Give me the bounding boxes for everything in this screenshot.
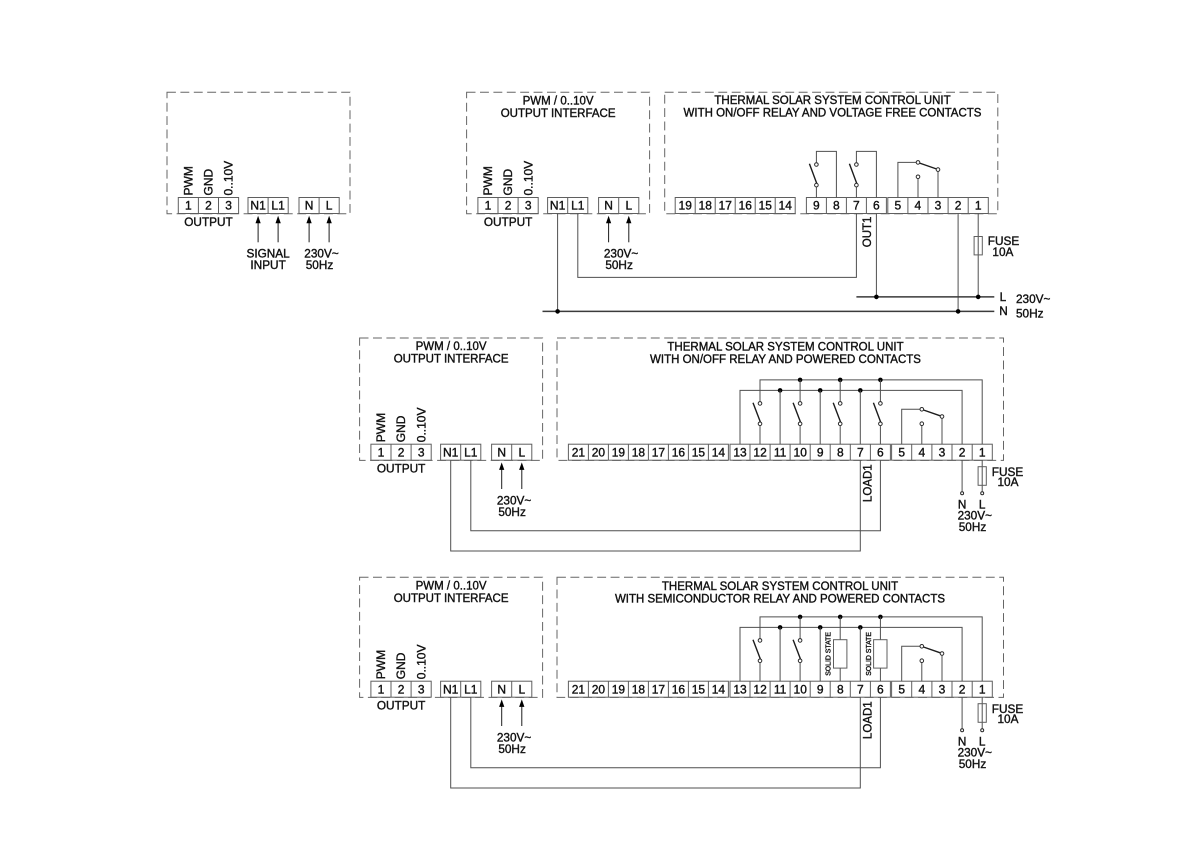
junction upper bus / solid-state relay pin 8 (U3) bbox=[838, 615, 843, 620]
interface C terminal block pins N L bbox=[492, 444, 532, 460]
svg-text:1: 1 bbox=[185, 199, 192, 213]
changeover relay contact (U2, common 5, contacts 4 and 3) bbox=[902, 408, 944, 445]
interface A mains arrow into N bbox=[306, 216, 311, 243]
svg-text:18: 18 bbox=[632, 682, 646, 696]
svg-text:6: 6 bbox=[877, 682, 884, 696]
fuse F1 10A bbox=[974, 237, 982, 255]
svg-text:13: 13 bbox=[733, 682, 747, 696]
svg-text:PWM: PWM bbox=[182, 166, 196, 195]
svg-text:L: L bbox=[625, 199, 632, 213]
svg-text:L1: L1 bbox=[464, 445, 478, 459]
svg-text:8: 8 bbox=[837, 445, 844, 459]
svg-text:L: L bbox=[518, 682, 525, 696]
power bus line L (230V~) bbox=[856, 296, 994, 298]
wire terminal 9 up to contact K1 bbox=[815, 187, 817, 198]
svg-text:10A: 10A bbox=[998, 475, 1019, 489]
svg-text:0..10V: 0..10V bbox=[222, 161, 236, 196]
svg-text:OUTPUT: OUTPUT bbox=[484, 215, 533, 229]
svg-text:2: 2 bbox=[505, 199, 512, 213]
svg-text:17: 17 bbox=[652, 445, 666, 459]
power bus line N (230V~) bbox=[543, 310, 995, 312]
wire terminal 2 (U3) down to N terminal circle bbox=[961, 697, 963, 729]
wire contact K1 top loop to terminal 8 bbox=[816, 151, 836, 197]
wire terminal 2 down to N bus bbox=[957, 214, 959, 312]
svg-text:L1: L1 bbox=[571, 199, 585, 213]
svg-text:50Hz: 50Hz bbox=[605, 258, 633, 272]
svg-text:0..10V: 0..10V bbox=[414, 644, 428, 679]
interface A terminal block pins 1 2 3 bbox=[178, 198, 238, 214]
svg-text:19: 19 bbox=[679, 199, 693, 213]
svg-text:15: 15 bbox=[692, 445, 706, 459]
svg-text:PWM / 0..10V: PWM / 0..10V bbox=[416, 580, 487, 592]
wire contact down to terminal (U2, x=760) bbox=[759, 426, 761, 445]
svg-text:11: 11 bbox=[774, 445, 787, 459]
wire terminal 7 up to contact K2 bbox=[855, 187, 857, 198]
svg-text:20: 20 bbox=[592, 682, 606, 696]
svg-text:13: 13 bbox=[733, 445, 747, 459]
svg-text:14: 14 bbox=[712, 682, 726, 696]
svg-text:21: 21 bbox=[572, 445, 586, 459]
svg-text:OUTPUT INTERFACE: OUTPUT INTERFACE bbox=[394, 593, 509, 605]
control unit U2 terminal block pins 13-6 bbox=[730, 444, 890, 460]
lower supply bus (U2) from terminal 13 to terminal 2 bbox=[740, 390, 962, 444]
svg-text:GND: GND bbox=[394, 652, 408, 679]
svg-text:N: N bbox=[497, 682, 506, 696]
interface C terminal block pins N1 L1 bbox=[441, 444, 481, 460]
svg-text:OUTPUT: OUTPUT bbox=[377, 699, 426, 713]
svg-text:5: 5 bbox=[898, 682, 905, 696]
svg-text:1: 1 bbox=[485, 199, 492, 213]
svg-text:THERMAL SOLAR SYSTEM CONTROL U: THERMAL SOLAR SYSTEM CONTROL UNIT bbox=[667, 342, 903, 354]
interface B terminal block pins N1 L1 bbox=[548, 198, 588, 214]
svg-text:17: 17 bbox=[652, 682, 666, 696]
interface D mains arrow into L bbox=[519, 699, 524, 726]
relay contact (U2) over pin 10 bbox=[793, 402, 802, 426]
svg-text:N1: N1 bbox=[550, 199, 566, 213]
interface C terminal block pins 1 2 3 bbox=[371, 444, 431, 460]
interface B terminal block pins 1 2 3 bbox=[478, 198, 538, 214]
interface D terminal block pins N L bbox=[492, 681, 532, 697]
wire L1 (interface B) to terminal 7 of U1 bbox=[578, 214, 857, 278]
svg-text:10A: 10A bbox=[992, 245, 1013, 259]
interface A signal arrow into L1 bbox=[276, 216, 281, 243]
svg-text:50Hz: 50Hz bbox=[959, 757, 987, 771]
svg-text:19: 19 bbox=[612, 445, 626, 459]
svg-text:15: 15 bbox=[692, 682, 706, 696]
svg-text:OUTPUT: OUTPUT bbox=[184, 215, 233, 229]
interface D terminal block pins 1 2 3 bbox=[371, 681, 431, 697]
wire terminal 1 (U2) down through fuse to L terminal circle bbox=[981, 460, 983, 492]
junction upper bus / contact over pin 6 (U2) bbox=[878, 378, 883, 383]
svg-text:3: 3 bbox=[418, 445, 425, 459]
relay contact (U2) over pin 8 bbox=[833, 402, 842, 426]
wire contact down to terminal (U2, x=880) bbox=[879, 426, 881, 445]
svg-text:3: 3 bbox=[225, 199, 232, 213]
svg-text:N1: N1 bbox=[443, 682, 459, 696]
solid state relay SSR over pin 8 (U3) bbox=[834, 617, 847, 681]
svg-text:14: 14 bbox=[712, 445, 726, 459]
interface C mains arrow into N bbox=[499, 462, 504, 489]
svg-text:1: 1 bbox=[378, 445, 385, 459]
svg-text:L: L bbox=[518, 445, 525, 459]
wire contact down to terminal (U3, x=800) bbox=[799, 663, 801, 682]
svg-text:OUTPUT INTERFACE: OUTPUT INTERFACE bbox=[394, 354, 509, 366]
svg-text:21: 21 bbox=[572, 682, 586, 696]
svg-text:7: 7 bbox=[857, 682, 864, 696]
svg-text:0..10V: 0..10V bbox=[414, 407, 428, 442]
open terminal circle L (U2) bbox=[981, 492, 984, 495]
svg-text:N1: N1 bbox=[443, 445, 459, 459]
svg-text:6: 6 bbox=[877, 445, 884, 459]
solid state relay SSR over pin 6 (U3) bbox=[874, 617, 887, 681]
svg-text:2: 2 bbox=[959, 445, 966, 459]
svg-text:16: 16 bbox=[739, 199, 753, 213]
wire terminal 2 (U2) down to N terminal circle bbox=[961, 460, 963, 492]
svg-text:50Hz: 50Hz bbox=[959, 520, 987, 534]
svg-text:9: 9 bbox=[813, 199, 820, 213]
svg-text:20: 20 bbox=[592, 445, 606, 459]
wire contact down to terminal (U2, x=840) bbox=[839, 426, 841, 445]
svg-text:PWM / 0..10V: PWM / 0..10V bbox=[523, 95, 594, 107]
svg-text:6: 6 bbox=[873, 199, 880, 213]
wire L1 (interface C) to terminal 6 of U2 bbox=[471, 460, 881, 531]
control unit U1 (thermal solar system control unit, dashed enclosure) bbox=[665, 92, 998, 214]
interface A terminal block pins N1 L1 bbox=[248, 198, 288, 214]
interface A signal arrow into N1 bbox=[256, 216, 261, 243]
junction upper bus / contact over pin 10 (U3) bbox=[798, 615, 803, 620]
svg-text:12: 12 bbox=[753, 682, 767, 696]
wire lower bus down to terminal 11 (U3) bbox=[779, 627, 781, 681]
svg-text:N: N bbox=[604, 199, 613, 213]
svg-text:9: 9 bbox=[817, 445, 824, 459]
svg-text:7: 7 bbox=[857, 445, 864, 459]
wire terminal 6 down to L bus bbox=[875, 214, 877, 297]
svg-text:PWM: PWM bbox=[374, 413, 388, 442]
svg-text:OUTPUT INTERFACE: OUTPUT INTERFACE bbox=[501, 108, 616, 120]
svg-text:INPUT: INPUT bbox=[250, 258, 285, 272]
wire terminal 1 (U3) down through fuse to L terminal circle bbox=[981, 697, 983, 729]
svg-text:SOLID STATE: SOLID STATE bbox=[826, 632, 833, 676]
svg-text:230V~: 230V~ bbox=[1016, 292, 1051, 306]
wire N1 (interface C) to terminal 7 of U2 bbox=[451, 460, 861, 551]
lower supply bus (U3) from terminal 13 to terminal 2 bbox=[740, 627, 962, 681]
interface B mains arrow into L bbox=[626, 216, 631, 243]
control unit U1 terminal block pins 9-6 bbox=[806, 198, 886, 214]
svg-text:2: 2 bbox=[205, 199, 212, 213]
svg-text:GND: GND bbox=[202, 169, 216, 196]
svg-text:17: 17 bbox=[719, 199, 733, 213]
svg-text:11: 11 bbox=[774, 682, 787, 696]
junction lower bus / terminal 7 (U3) bbox=[858, 625, 863, 630]
svg-text:50Hz: 50Hz bbox=[1016, 306, 1044, 320]
svg-text:50Hz: 50Hz bbox=[306, 258, 334, 272]
svg-text:N: N bbox=[305, 199, 314, 213]
fuse F3 10A bbox=[978, 704, 986, 723]
wire N1 (interface D) to terminal 7 of U3 bbox=[451, 697, 861, 788]
wire L1 (interface D) to terminal 6 of U3 bbox=[471, 697, 881, 768]
relay contact (U3) over pin 12 bbox=[753, 639, 762, 663]
svg-text:WITH ON/OFF RELAY AND VOLTAGE: WITH ON/OFF RELAY AND VOLTAGE FREE CONTA… bbox=[684, 108, 982, 120]
svg-text:50Hz: 50Hz bbox=[498, 505, 526, 519]
svg-text:7: 7 bbox=[853, 199, 860, 213]
junction lower bus / terminal 9 (U2) bbox=[818, 388, 823, 393]
control unit U3 terminal block pins 5-1 bbox=[892, 681, 993, 697]
svg-text:15: 15 bbox=[759, 199, 773, 213]
interface A mains arrow into L bbox=[327, 216, 332, 243]
junction N1 / N bus bbox=[555, 309, 560, 314]
wire upper bus down to contact (U2, x=880) bbox=[879, 380, 881, 402]
svg-text:10: 10 bbox=[794, 682, 808, 696]
svg-text:9: 9 bbox=[817, 682, 824, 696]
control unit U2 terminal block pins 21-14 bbox=[568, 444, 728, 460]
control unit U1 terminal block pins 19-14 bbox=[675, 198, 795, 214]
control unit U3 terminal block pins 13-6 bbox=[730, 681, 890, 697]
junction terminal 6 / L bus bbox=[874, 295, 879, 300]
interface C mains arrow into L bbox=[519, 462, 524, 489]
svg-text:4: 4 bbox=[918, 682, 925, 696]
wire N1 (interface B) down to N bus bbox=[557, 214, 559, 312]
PWM/0..10V output interface module B (dashed enclosure) bbox=[467, 92, 650, 214]
junction upper bus / contact over pin 10 (U2) bbox=[798, 378, 803, 383]
junction terminal 2 / N bus bbox=[956, 309, 961, 314]
junction lower bus / terminal 7 (U2) bbox=[858, 388, 863, 393]
relay contact (U2) over pin 6 bbox=[873, 402, 882, 426]
svg-text:10A: 10A bbox=[998, 712, 1019, 726]
PWM/0..10V output interface module D (dashed enclosure) bbox=[360, 577, 543, 697]
wire contact down to terminal (U3, x=760) bbox=[759, 663, 761, 682]
control unit U2 (dashed enclosure) bbox=[557, 338, 1004, 460]
junction lower bus / terminal 11 (U2) bbox=[778, 388, 783, 393]
svg-text:2: 2 bbox=[398, 445, 405, 459]
svg-text:N: N bbox=[999, 304, 1008, 318]
svg-text:2: 2 bbox=[959, 682, 966, 696]
svg-text:16: 16 bbox=[672, 445, 686, 459]
junction fuse F1 / L bus bbox=[976, 295, 981, 300]
svg-text:1: 1 bbox=[979, 445, 986, 459]
svg-text:OUT1: OUT1 bbox=[862, 217, 874, 248]
relay contact K2 (pins 7-6, open) bbox=[849, 163, 858, 187]
svg-text:PWM: PWM bbox=[481, 166, 495, 195]
open terminal circle N (U3) bbox=[961, 729, 964, 732]
upper supply bus (U2) from contact 12 to terminal 1 bbox=[760, 380, 982, 444]
upper supply bus (U3) from contact 12 to terminal 1 bbox=[760, 617, 982, 681]
relay contact K1 (pins 9-8, open) bbox=[809, 163, 818, 187]
svg-text:THERMAL SOLAR SYSTEM CONTROL U: THERMAL SOLAR SYSTEM CONTROL UNIT bbox=[662, 581, 898, 593]
interface B terminal block pins N L bbox=[599, 198, 639, 214]
fuse F2 10A bbox=[978, 467, 986, 486]
svg-text:5: 5 bbox=[894, 199, 901, 213]
svg-text:GND: GND bbox=[394, 415, 408, 442]
svg-text:L: L bbox=[1000, 290, 1007, 304]
svg-text:18: 18 bbox=[699, 199, 713, 213]
wire upper bus down to contact (U2, x=840) bbox=[839, 380, 841, 402]
control unit U3 terminal block pins 21-14 bbox=[568, 681, 728, 697]
svg-text:4: 4 bbox=[915, 199, 922, 213]
wire contact K2 top loop to terminal 6 bbox=[856, 151, 876, 197]
junction upper bus / solid-state relay pin 6 (U3) bbox=[878, 615, 883, 620]
svg-text:LOAD1: LOAD1 bbox=[863, 701, 875, 739]
wire contact down to terminal (U2, x=800) bbox=[799, 426, 801, 445]
svg-text:GND: GND bbox=[501, 169, 515, 196]
svg-text:3: 3 bbox=[525, 199, 532, 213]
relay contact (U3) over pin 10 bbox=[793, 639, 802, 663]
interface D mains arrow into N bbox=[499, 699, 504, 726]
relay contact (U2) over pin 12 bbox=[753, 402, 762, 426]
wire terminal 1 down through fuse F1 to L bus bbox=[977, 214, 979, 297]
svg-text:3: 3 bbox=[418, 682, 425, 696]
svg-text:2: 2 bbox=[398, 682, 405, 696]
junction upper bus / contact over pin 8 (U2) bbox=[838, 378, 843, 383]
svg-text:8: 8 bbox=[837, 682, 844, 696]
svg-text:1: 1 bbox=[975, 199, 982, 213]
wire upper bus down to contact (U2, x=800) bbox=[799, 380, 801, 402]
junction lower bus / terminal 9 (U3) bbox=[818, 625, 823, 630]
wire lower bus down to terminal 7 (U3) bbox=[859, 627, 861, 681]
svg-text:N1: N1 bbox=[250, 199, 266, 213]
svg-text:0..10V: 0..10V bbox=[521, 161, 535, 196]
svg-text:2: 2 bbox=[955, 199, 962, 213]
svg-text:LOAD1: LOAD1 bbox=[863, 464, 875, 502]
svg-text:50Hz: 50Hz bbox=[498, 742, 526, 756]
control unit U3 (dashed enclosure) bbox=[557, 577, 1004, 697]
svg-text:12: 12 bbox=[753, 445, 767, 459]
svg-text:4: 4 bbox=[918, 445, 925, 459]
interface D terminal block pins N1 L1 bbox=[441, 681, 481, 697]
wire lower bus down to terminal 9 (U3) bbox=[819, 627, 821, 681]
svg-text:1: 1 bbox=[979, 682, 986, 696]
svg-text:L1: L1 bbox=[271, 199, 285, 213]
svg-text:WITH SEMICONDUCTOR RELAY AND P: WITH SEMICONDUCTOR RELAY AND POWERED CON… bbox=[615, 593, 945, 605]
svg-text:3: 3 bbox=[939, 445, 946, 459]
svg-text:N: N bbox=[497, 445, 506, 459]
junction lower bus / terminal 11 (U3) bbox=[778, 625, 783, 630]
svg-text:19: 19 bbox=[612, 682, 626, 696]
svg-text:16: 16 bbox=[672, 682, 686, 696]
svg-text:L1: L1 bbox=[464, 682, 478, 696]
control unit U2 terminal block pins 5-1 bbox=[892, 444, 993, 460]
svg-text:14: 14 bbox=[779, 199, 793, 213]
changeover relay contact K3 (common 5, contacts 4 and 3) bbox=[898, 161, 940, 198]
svg-text:3: 3 bbox=[939, 682, 946, 696]
wire upper bus down to contact (U3, x=800) bbox=[799, 617, 801, 639]
svg-text:L: L bbox=[326, 199, 333, 213]
wire lower bus down to terminal 9 (U2) bbox=[819, 390, 821, 444]
interface A terminal block pins N L bbox=[299, 198, 339, 214]
svg-text:WITH ON/OFF RELAY AND POWERED: WITH ON/OFF RELAY AND POWERED CONTACTS bbox=[650, 354, 921, 366]
svg-text:THERMAL SOLAR SYSTEM CONTROL U: THERMAL SOLAR SYSTEM CONTROL UNIT bbox=[714, 95, 950, 107]
PWM/0..10V output interface module A (dashed enclosure) bbox=[167, 92, 350, 214]
svg-text:PWM / 0..10V: PWM / 0..10V bbox=[416, 341, 487, 353]
svg-text:18: 18 bbox=[632, 445, 646, 459]
changeover relay contact (U3, common 5, contacts 4 and 3) bbox=[902, 645, 944, 682]
control unit U1 terminal block pins 5-1 bbox=[888, 198, 989, 214]
svg-text:8: 8 bbox=[833, 199, 840, 213]
svg-text:10: 10 bbox=[794, 445, 808, 459]
svg-text:PWM: PWM bbox=[374, 650, 388, 679]
svg-text:5: 5 bbox=[898, 445, 905, 459]
open terminal circle L (U3) bbox=[981, 729, 984, 732]
svg-text:SOLID STATE: SOLID STATE bbox=[866, 632, 873, 676]
svg-text:OUTPUT: OUTPUT bbox=[377, 462, 426, 476]
PWM/0..10V output interface module C (dashed enclosure) bbox=[360, 338, 543, 460]
wire lower bus down to terminal 11 (U2) bbox=[779, 390, 781, 444]
interface B mains arrow into N bbox=[606, 216, 611, 243]
svg-text:1: 1 bbox=[378, 682, 385, 696]
wire lower bus down to terminal 7 (U2) bbox=[859, 390, 861, 444]
svg-text:3: 3 bbox=[935, 199, 942, 213]
open terminal circle N (U2) bbox=[961, 492, 964, 495]
